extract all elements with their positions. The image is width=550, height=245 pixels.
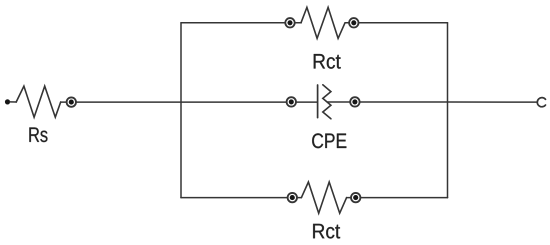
CPE zigzag element [323, 85, 331, 119]
node terminal middle-left [287, 97, 296, 106]
open terminal C at right [537, 98, 545, 107]
wire [61, 101, 67, 103]
label Rct bottom [313, 224, 340, 239]
wire top branch right [345, 22, 447, 24]
wire right box edge [447, 23, 449, 198]
node terminal after Rs [67, 97, 76, 106]
wire top branch left [181, 22, 301, 24]
wire output lead [448, 101, 537, 103]
wire left box edge [180, 23, 182, 198]
wire [10, 101, 16, 103]
node terminal top-right [349, 18, 358, 27]
resistor Rct top [301, 7, 345, 38]
label Rs [29, 127, 47, 142]
wire middle branch right of CPE [328, 101, 448, 103]
capacitor plate of CPE [317, 85, 319, 118]
node terminal bottom-right [351, 193, 360, 202]
resistor Rct bottom [301, 182, 346, 213]
wire bottom branch right [347, 197, 448, 199]
label CPE [312, 133, 346, 148]
label Rct top [314, 54, 341, 69]
wire [76, 101, 318, 103]
wire bottom branch left [181, 197, 301, 199]
node terminal bottom-left [288, 193, 297, 202]
node terminal middle-right [350, 97, 359, 106]
start terminal dot [5, 99, 10, 104]
resistor Rs [16, 86, 61, 117]
node terminal top-left [285, 18, 294, 27]
